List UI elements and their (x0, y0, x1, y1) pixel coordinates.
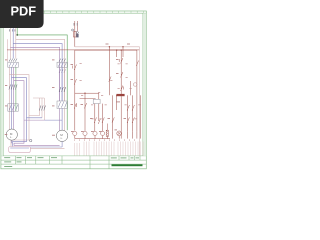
right ladder verticals (131, 50, 141, 139)
auxiliary contacts motor2 (59, 69, 65, 72)
tiny device labels red (5, 59, 126, 136)
circuit breaker Q1 contacts (9, 59, 17, 62)
resistor feed stub (106, 124, 108, 131)
blue branch wire to motor2 column (13, 44, 62, 101)
fuse F1 terminal text (74, 23, 78, 26)
circuit breaker Q2 box (57, 62, 68, 67)
contactor K4 contacts motor2 (59, 87, 66, 92)
purple branch wire to motor2 column (10, 47, 59, 101)
right border band (143, 13, 146, 156)
supply wire L3 pink vertical (15, 28, 17, 59)
branch B2 drop wire (84, 93, 86, 131)
supply wire L2 blue vertical (12, 28, 14, 59)
star branch blue wire (12, 78, 63, 147)
motor1 phase wire b (11, 67, 13, 129)
coil bottom stubs (75, 136, 119, 139)
coil K2 (83, 131, 87, 135)
fuse F1 marks (72, 29, 79, 37)
contact on branch x137 (136, 61, 138, 67)
star branch pink wire (9, 75, 64, 149)
circuit breaker Q1 box (8, 62, 18, 67)
branch B2 contact (84, 103, 86, 109)
node PE junction (16, 34, 18, 36)
control feed wire dark red (7, 49, 139, 51)
branch B1 contact 3 (74, 103, 77, 109)
control bus lower dark (75, 49, 137, 51)
contactor K2 wires (33, 98, 44, 120)
coil K1 (73, 131, 77, 135)
contact on branch x109 (109, 77, 111, 83)
branch B1 wire (74, 50, 76, 131)
overload F4 box motor2 (57, 101, 68, 108)
ladder drops to bottom (112, 131, 136, 138)
motor2 column wires lower (60, 108, 65, 130)
stamp box inner line (10, 147, 29, 149)
drawing frame inner lines (1, 13, 146, 156)
PE terminal node (30, 139, 32, 141)
branch link wire (75, 93, 99, 99)
branch B1 contact 1 (73, 65, 77, 71)
motor M1 (6, 129, 17, 140)
breaker Q1 box hatch (9, 63, 17, 67)
circuit breaker Q2 contacts motor2 (59, 59, 66, 62)
delta link blue wire (27, 118, 63, 120)
right branch contacts (112, 105, 134, 123)
svg-text:PDF: PDF (10, 4, 36, 19)
top border column ticks (7, 11, 143, 13)
star branch purple wire (14, 81, 60, 146)
coil K4 (101, 131, 105, 135)
control bus upper light (75, 47, 140, 156)
fuse F1 control (74, 21, 78, 47)
motor1 phase wire c (13, 67, 15, 130)
delta link purple wire (24, 119, 44, 121)
pink branch wire to motor2 column (16, 39, 65, 101)
extra tiny labels ladder (80, 63, 141, 119)
supply wire terminal flags (9, 29, 15, 31)
green PE branch to motor2 column (17, 35, 67, 130)
pink stub wire left (6, 39, 8, 62)
timer box outline (93, 99, 100, 103)
motor M2 bottom lead (61, 142, 63, 148)
thick link bar (116, 94, 124, 96)
test point circle (133, 83, 137, 87)
title block text marks (4, 157, 139, 167)
PDF badge (0, 0, 44, 28)
link bar drops (112, 95, 132, 131)
left border band (1, 13, 3, 156)
motor1 phase wire a (8, 67, 10, 130)
branch K5 contacts stack (119, 58, 123, 91)
node B2 tap (84, 93, 85, 94)
timer output wires (95, 104, 103, 132)
supply wire L1 pink vertical (9, 28, 11, 59)
wire number text row (74, 139, 135, 141)
branch B1 contact 2 (74, 79, 76, 85)
motor1 PE wire (15, 67, 17, 111)
node bus taps (109, 46, 124, 51)
contactor K1 contacts (9, 85, 17, 90)
ladder mid verticals (109, 47, 123, 96)
contactor K2 contacts (39, 106, 45, 111)
coil K3 (93, 131, 97, 135)
motor M2 (56, 130, 67, 141)
overload F2 hatch (9, 105, 18, 111)
bottom control bus (75, 138, 110, 140)
wire number above bus (106, 43, 109, 46)
title block address strip (112, 164, 143, 166)
supply wire PE green vertical (16, 28, 18, 35)
delta link pink wire (29, 115, 40, 117)
timer feed wire (80, 98, 96, 100)
motor2 column wires mid (60, 67, 65, 101)
lamp H1 (117, 131, 122, 136)
breaker Q2 box hatch (58, 63, 66, 67)
title block grid (1, 156, 146, 169)
timer output contacts (94, 117, 104, 124)
motor M1 bottom lead (11, 140, 13, 143)
drawing frame outer border (1, 11, 146, 169)
overload F4 hatch (58, 102, 67, 108)
overload F2 box (8, 104, 18, 111)
stamp box above title block (9, 147, 31, 153)
contact reference comb (75, 142, 144, 156)
resistor X box (106, 130, 108, 136)
